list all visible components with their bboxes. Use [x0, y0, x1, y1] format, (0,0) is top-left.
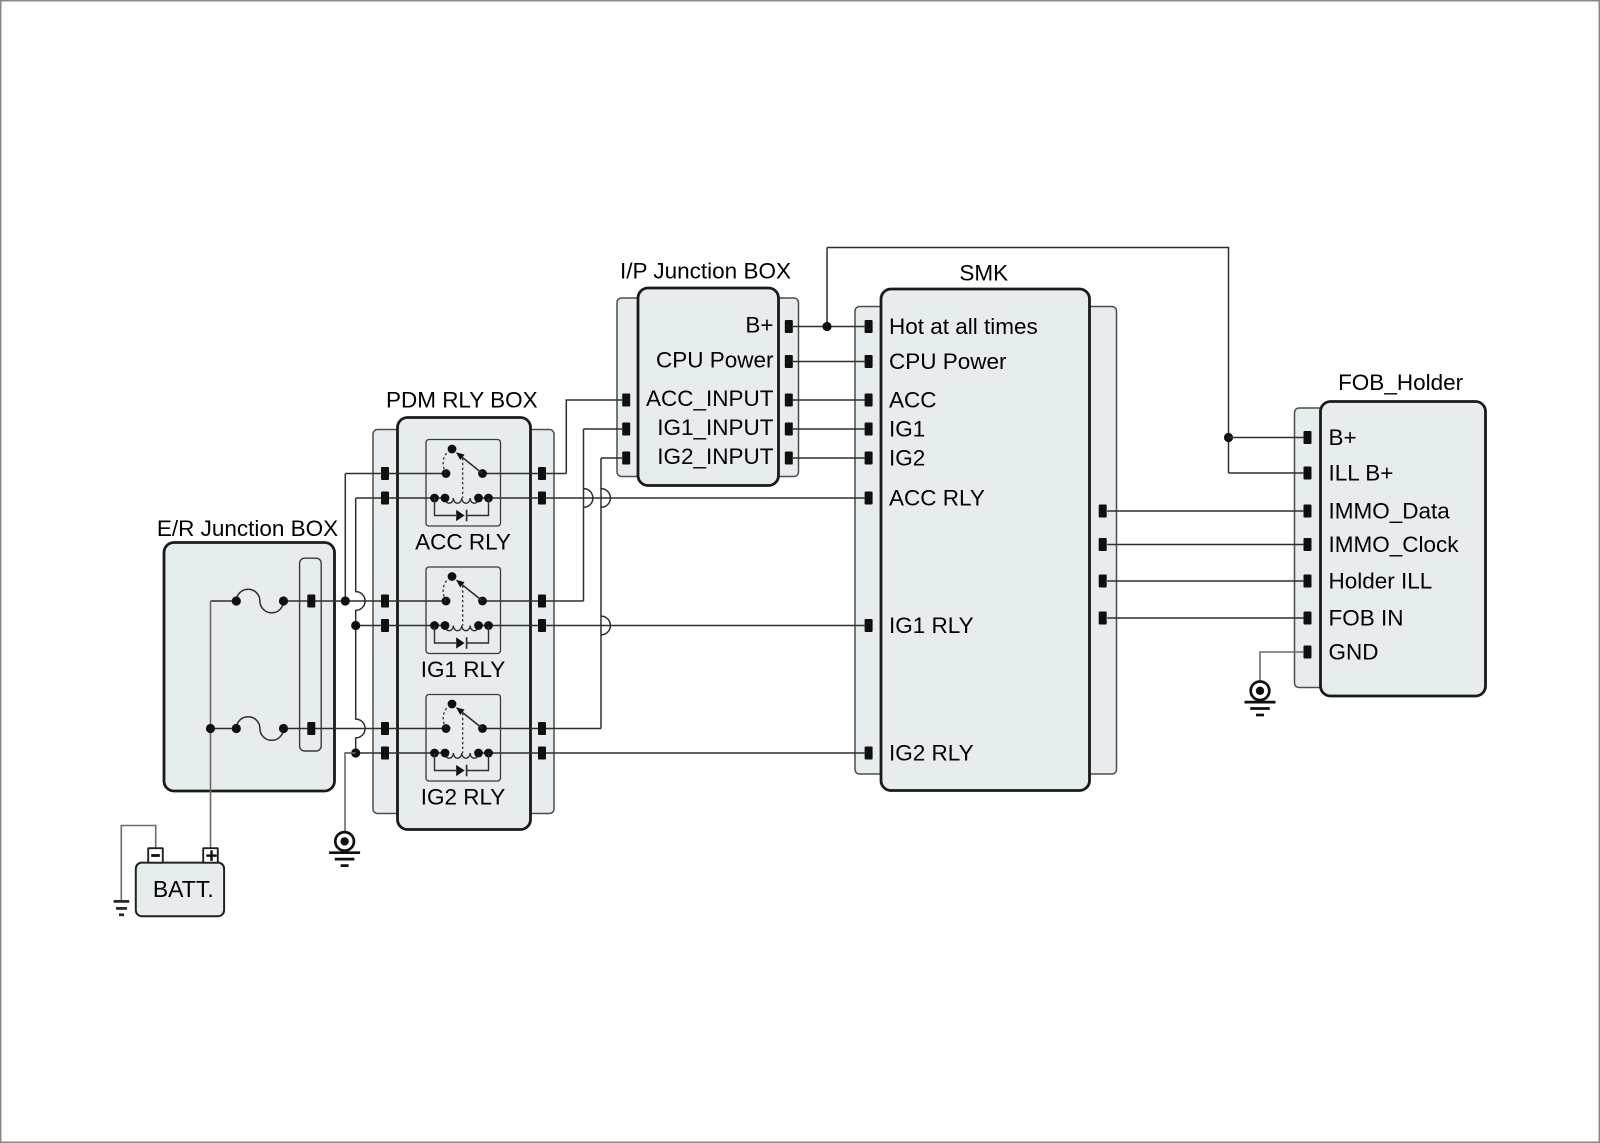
- relay ACC RLY armature (NO contact arm): [463, 458, 483, 474]
- pin FOB_Holder IMMO_Data: [1304, 505, 1312, 518]
- wire CPU Power: I/P to SMK: [793, 361, 865, 363]
- svg-text:B+: B+: [745, 313, 773, 338]
- pin I/P left IG1_INPUT: [622, 423, 630, 436]
- svg-text:IG1_INPUT: IG1_INPUT: [657, 415, 774, 440]
- svg-text:ACC RLY: ACC RLY: [889, 485, 985, 510]
- wire FOB B+ branch: [1229, 437, 1304, 439]
- svg-text:E/R Junction BOX: E/R Junction BOX: [157, 516, 338, 541]
- wire ACC relay switch row: [345, 473, 446, 475]
- pin FOB_Holder Holder ILL: [1304, 575, 1312, 588]
- pin SMK left IG2: [865, 452, 873, 465]
- svg-text:Hot at all times: Hot at all times: [889, 314, 1038, 339]
- pin PDM left ACC coil: [381, 492, 389, 505]
- pin PDM left IG2 coil: [381, 747, 389, 760]
- relay IG2 RLY suppression diode loop: [435, 753, 489, 771]
- relay IG2 RLY module box: [426, 695, 501, 782]
- relay IG2 RLY switch contacts: [442, 724, 451, 733]
- svg-text:IMMO_Data: IMMO_Data: [1329, 499, 1451, 524]
- I/P Junction BOX connector strip: [617, 298, 799, 477]
- ground symbol G1 (PDM relay coils): [335, 832, 354, 851]
- svg-text:ILL B+: ILL B+: [1329, 461, 1394, 486]
- svg-text:ACC: ACC: [889, 387, 937, 412]
- pin SMK left ACC: [865, 394, 873, 407]
- svg-text:IG1 RLY: IG1 RLY: [889, 613, 974, 638]
- wire IG1_INPUT from IG1 relay switch: [584, 429, 593, 601]
- I/P Junction BOX body: [638, 288, 779, 486]
- pin SMK right FOB IN: [1099, 612, 1107, 625]
- svg-text:SMK: SMK: [959, 260, 1008, 285]
- svg-text:ACC_INPUT: ACC_INPUT: [646, 386, 774, 411]
- wire top B+ run to FOB: [827, 248, 1229, 474]
- svg-text:IMMO_Clock: IMMO_Clock: [1329, 532, 1460, 557]
- svg-text:FOB IN: FOB IN: [1329, 606, 1404, 631]
- relay ACC RLY suppression diode loop: [435, 498, 489, 516]
- pin SMK left IG1 RLY: [865, 619, 873, 632]
- wire SMK IMMO_Clock to FOB: [1107, 544, 1303, 546]
- relay IG1 RLY module box: [426, 567, 501, 654]
- pin PDM right IG2 coil: [538, 747, 546, 760]
- wire battery positive feed: [210, 601, 212, 848]
- battery BATT. body: [136, 863, 224, 917]
- wire SMK FOB IN to FOB: [1107, 617, 1303, 619]
- svg-text:IG2 RLY: IG2 RLY: [889, 740, 974, 765]
- relay ACC RLY armature travel (dashed arc): [443, 450, 450, 473]
- node fuse2 feed junction: [206, 724, 215, 733]
- pin I/P left IG2_INPUT: [622, 452, 630, 465]
- relay IG1 RLY switch contacts: [442, 597, 451, 606]
- relay IG1 RLY actuation link (dashed): [462, 586, 464, 626]
- wire relay coil ground bus: [356, 498, 365, 753]
- fuse F2 element: [236, 717, 283, 741]
- relay IG2 RLY armature travel (dashed arc): [443, 705, 450, 728]
- FOB_Holder connector strip: [1295, 408, 1340, 688]
- battery positive terminal: [203, 848, 218, 863]
- wire IG2: I/P to SMK: [793, 457, 865, 459]
- pin FOB_Holder GND: [1304, 646, 1312, 659]
- fuse F1 element: [236, 589, 283, 613]
- svg-text:FOB_Holder: FOB_Holder: [1338, 370, 1464, 395]
- wire fuse2 feed / IG2 relay switch row: [211, 728, 237, 730]
- svg-text:CPU Power: CPU Power: [656, 348, 774, 373]
- relay IG1 RLY switch common (armature pivot): [448, 572, 457, 581]
- ground symbol G2 (FOB holder): [1251, 682, 1270, 701]
- svg-text:IG2: IG2: [889, 445, 925, 470]
- battery negative terminal: [148, 848, 163, 863]
- relay IG2 RLY switch common (armature pivot): [448, 700, 457, 709]
- wire ACC_INPUT from ACC relay switch: [566, 400, 622, 474]
- pin I/P right B+: [785, 320, 793, 333]
- wire IG1: I/P to SMK: [793, 428, 865, 430]
- pin SMK left IG2 RLY: [865, 747, 873, 760]
- svg-text:IG2 RLY: IG2 RLY: [421, 785, 506, 810]
- wire PDM coil ground drop: [345, 753, 356, 831]
- pin FOB_Holder ILL B+: [1304, 467, 1312, 480]
- E/R Junction BOX fuse-holder rect: [300, 558, 322, 751]
- svg-text:CPU Power: CPU Power: [889, 349, 1007, 374]
- relay ACC RLY switch common (armature pivot): [448, 445, 457, 454]
- pin FOB_Holder B+: [1304, 431, 1312, 444]
- svg-text:IG1 RLY: IG1 RLY: [421, 657, 506, 682]
- relay IG1 RLY suppression diode loop: [435, 626, 489, 644]
- pin PDM left IG2 switch: [381, 722, 389, 735]
- relay ACC RLY module box: [426, 440, 501, 527]
- pin SMK right IMMO_Clock: [1099, 538, 1107, 551]
- pin I/P right IG1_INPUT: [785, 423, 793, 436]
- node B+ junction at FOB: [1224, 433, 1233, 442]
- pin PDM left IG1 coil: [381, 619, 389, 632]
- wire ACC relay coil row to SMK ACC RLY: [356, 497, 445, 499]
- SMK connector strip: [855, 307, 1117, 775]
- svg-text:ACC RLY: ACC RLY: [415, 530, 511, 555]
- pin PDM right IG2 switch: [538, 722, 546, 735]
- relay IG2 RLY armature (NO contact arm): [463, 713, 483, 729]
- pin I/P right IG2_INPUT: [785, 452, 793, 465]
- FOB_Holder body: [1321, 402, 1486, 697]
- pin PDM right IG1 switch: [538, 595, 546, 608]
- svg-text:IG1: IG1: [889, 416, 925, 441]
- PDM RLY BOX body: [398, 418, 531, 830]
- pin PDM right IG1 coil: [538, 619, 546, 632]
- pin PDM left ACC switch: [381, 467, 389, 480]
- pin PDM right ACC switch: [538, 467, 546, 480]
- pin SMK left ACC RLY: [865, 492, 873, 505]
- wire FOB GND drop: [1260, 652, 1303, 681]
- svg-text:I/P Junction BOX: I/P Junction BOX: [620, 259, 791, 284]
- earth ground symbol at battery: [114, 900, 130, 903]
- PDM RLY BOX connector strip: [373, 430, 554, 814]
- pin SMK left CPU Power: [865, 355, 873, 368]
- pin FOB_Holder IMMO_Clock: [1304, 538, 1312, 551]
- svg-text:BATT.: BATT.: [153, 876, 214, 902]
- svg-text:PDM RLY BOX: PDM RLY BOX: [386, 388, 538, 413]
- relay IG2 RLY actuation link (dashed): [462, 713, 464, 753]
- pin PDM left IG1 switch: [381, 595, 389, 608]
- pin I/P left ACC_INPUT: [622, 394, 630, 407]
- wire B+ net: I/P B+ to SMK Hot at all times: [793, 326, 865, 328]
- wire FOB ILL B+ branch: [1229, 472, 1304, 474]
- relay IG2 RLY coil: [445, 753, 479, 758]
- pin I/P right CPU Power: [785, 355, 793, 368]
- relay ACC RLY coil: [445, 498, 479, 503]
- pin E/R fuse1 output: [307, 595, 315, 608]
- wire battery negative to earth: [121, 826, 155, 902]
- relay IG1 RLY armature (NO contact arm): [463, 585, 483, 601]
- pin SMK left Hot at all times: [865, 320, 873, 333]
- wire ACC: I/P to SMK: [793, 399, 865, 401]
- relay ACC RLY switch contacts: [442, 469, 451, 478]
- svg-text:IG2_INPUT: IG2_INPUT: [657, 444, 774, 469]
- pin PDM right ACC coil: [538, 492, 546, 505]
- pin FOB_Holder FOB IN: [1304, 612, 1312, 625]
- wire SMK IMMO_Data to FOB: [1107, 510, 1303, 512]
- pin E/R fuse2 output: [307, 722, 315, 735]
- E/R Junction BOX body: [164, 543, 335, 792]
- svg-text:Holder ILL: Holder ILL: [1329, 569, 1433, 594]
- relay ACC RLY actuation link (dashed): [462, 458, 464, 498]
- pin SMK left IG1: [865, 423, 873, 436]
- svg-text:GND: GND: [1329, 640, 1379, 665]
- wire ACC switch branch from fuse1: [344, 474, 346, 602]
- relay IG1 RLY armature travel (dashed arc): [443, 578, 450, 601]
- wire SMK Holder ILL to FOB: [1107, 580, 1303, 582]
- node fuse1 output junction: [341, 596, 350, 605]
- pin SMK right Holder ILL: [1099, 575, 1107, 588]
- wire fuse1 feed / IG1 relay switch row: [211, 600, 237, 602]
- wire IG2 relay coil row to SMK IG2 RLY: [345, 752, 445, 754]
- wire B+ riser to top run: [826, 248, 828, 327]
- relay IG1 RLY coil: [445, 626, 479, 631]
- pin SMK right IMMO_Data: [1099, 505, 1107, 518]
- pin I/P right ACC_INPUT: [785, 394, 793, 407]
- wire IG2_INPUT from IG2 relay switch: [601, 458, 610, 729]
- wire IG1 relay coil row to SMK IG1 RLY: [356, 625, 445, 627]
- SMK body: [881, 289, 1090, 791]
- svg-text:B+: B+: [1329, 425, 1357, 450]
- node B+ junction at I/P: [822, 322, 831, 331]
